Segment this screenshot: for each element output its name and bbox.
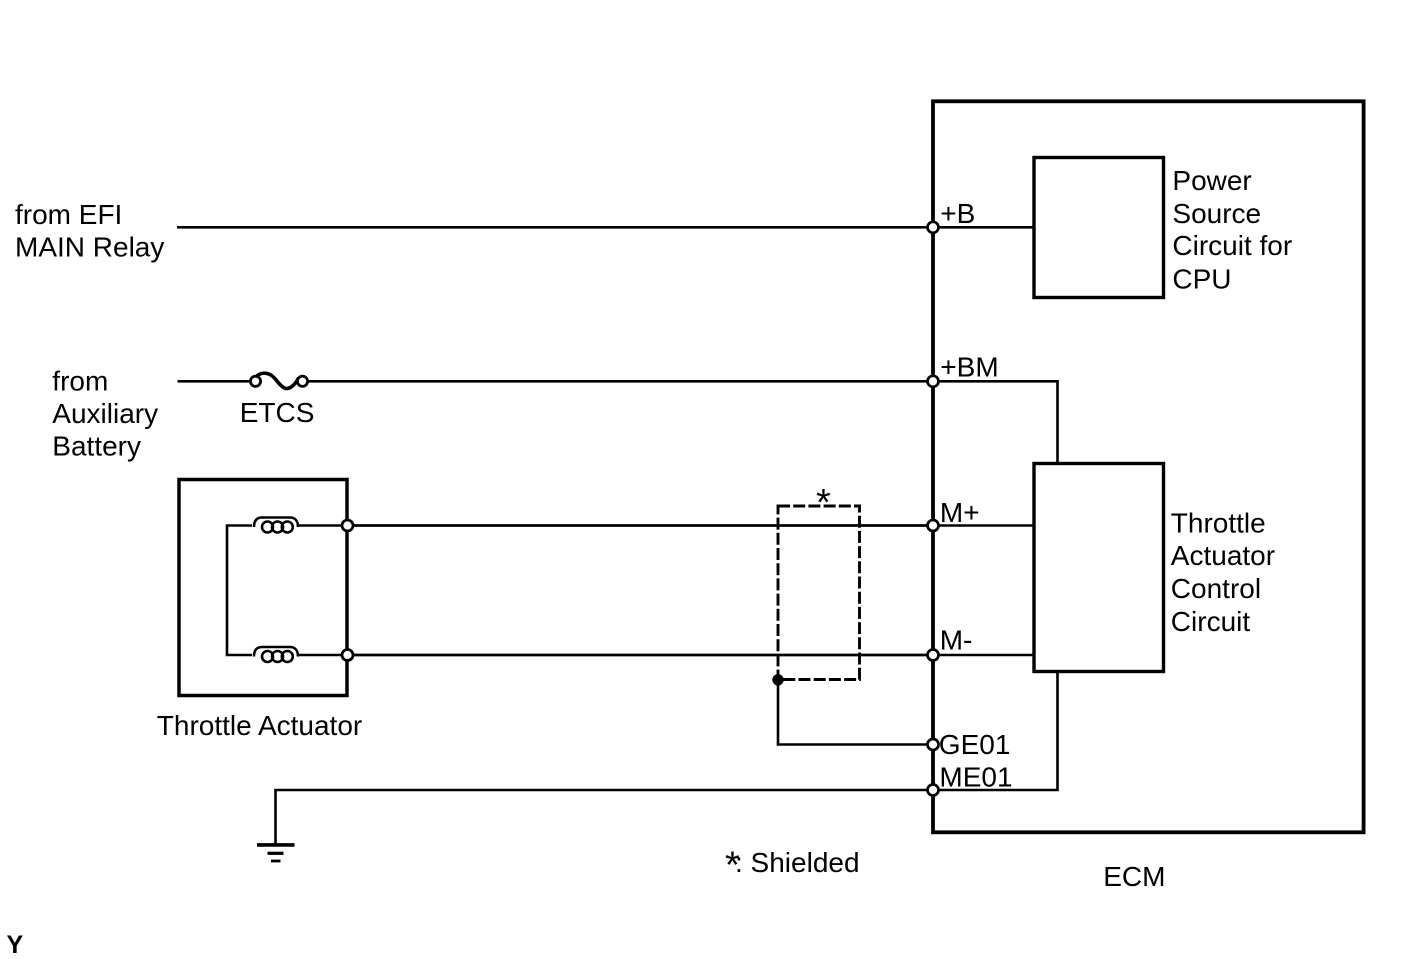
- wire M- from throttle actuator to ECM: [347, 654, 933, 657]
- ground: [257, 845, 295, 861]
- pin +B: [928, 222, 939, 233]
- wire from EFI MAIN Relay to +B: [177, 226, 933, 229]
- svg-text:ECM: ECM: [1103, 861, 1165, 892]
- svg-text:from: from: [52, 365, 108, 396]
- svg-text:Y: Y: [7, 931, 24, 959]
- node terminal at throttle actuator M-: [342, 650, 353, 661]
- svg-text:Circuit: Circuit: [1171, 606, 1251, 637]
- svg-text:GE01: GE01: [939, 729, 1011, 760]
- svg-text:Throttle Actuator: Throttle Actuator: [157, 710, 362, 741]
- pin GE01: [928, 739, 939, 750]
- wire M+ to control circuit: [933, 524, 1034, 527]
- pin M+: [928, 520, 939, 531]
- throttle actuator control circuit box: [1034, 464, 1164, 672]
- svg-text:M+: M+: [940, 497, 980, 528]
- svg-text:from EFI: from EFI: [15, 199, 122, 230]
- svg-text:CPU: CPU: [1172, 264, 1231, 295]
- svg-text:: Shielded: : Shielded: [735, 847, 860, 878]
- svg-text:Actuator: Actuator: [1171, 540, 1275, 571]
- svg-text:Control: Control: [1171, 573, 1261, 604]
- ECM box: [933, 101, 1364, 832]
- wire M+ from throttle actuator to ECM: [347, 524, 933, 527]
- svg-text:+B: +B: [940, 198, 975, 229]
- svg-text:Throttle: Throttle: [1171, 508, 1266, 539]
- wire from Auxiliary Battery to fuse: [178, 380, 251, 383]
- svg-text:ME01: ME01: [939, 761, 1012, 792]
- wire coil L1 to M+ node: [298, 524, 348, 527]
- svg-text:Source: Source: [1172, 198, 1261, 229]
- throttle actuator box: [179, 480, 347, 696]
- svg-text:+BM: +BM: [940, 352, 998, 383]
- coil L2 (lower motor winding): [254, 647, 298, 662]
- wire +BM to throttle actuator control circuit: [933, 381, 1058, 464]
- fuse ETCS: [250, 373, 307, 388]
- label "Power Source Circuit for CPU": [1172, 165, 1292, 295]
- svg-text:ETCS: ETCS: [240, 397, 315, 428]
- label "Throttle Actuator Control Circuit": [1171, 508, 1275, 637]
- wire shield drain to GE01: [778, 680, 933, 745]
- wire control circuit to ME01: [933, 672, 1058, 791]
- shield (dashed box): [778, 506, 860, 680]
- pin ME01: [928, 785, 939, 796]
- svg-text:Power: Power: [1172, 165, 1251, 196]
- wire +B to power source circuit: [933, 226, 1034, 229]
- junction dot on shield drain: [772, 674, 783, 685]
- svg-text:Circuit for: Circuit for: [1172, 230, 1292, 261]
- coil L1 (upper motor winding): [254, 518, 298, 533]
- power source circuit box: [1034, 158, 1164, 298]
- svg-text:M-: M-: [940, 624, 973, 655]
- pin +BM: [928, 376, 939, 387]
- wire ME01 to ground: [276, 790, 934, 845]
- wire fuse to +BM: [308, 380, 933, 383]
- wire M- to control circuit: [933, 654, 1034, 657]
- svg-text:Auxiliary: Auxiliary: [52, 398, 158, 429]
- wire inner loop of throttle actuator: [227, 526, 252, 656]
- label "from Auxiliary Battery": [52, 365, 158, 461]
- node terminal at throttle actuator M+: [342, 520, 353, 531]
- label "from EFI MAIN Relay": [15, 199, 164, 262]
- svg-text:MAIN Relay: MAIN Relay: [15, 231, 164, 262]
- svg-text:Battery: Battery: [52, 431, 141, 462]
- pin M-: [928, 650, 939, 661]
- svg-text:*: *: [816, 482, 831, 524]
- wire coil L2 to M- node: [298, 654, 348, 657]
